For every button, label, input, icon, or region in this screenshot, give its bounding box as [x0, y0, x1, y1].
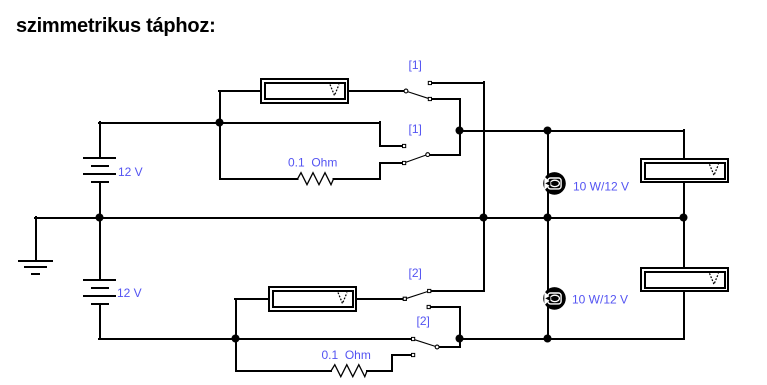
svg-text:10 W/12 V: 10 W/12 V [573, 179, 629, 193]
switch SW2 pole circle [426, 153, 430, 157]
svg-text:[1]: [1] [409, 58, 422, 72]
battery B1 [83, 158, 116, 182]
switch SW4 throw-b terminal [412, 353, 415, 356]
wire top rail [99, 122, 380, 124]
switch SW1 pole circle [404, 89, 408, 93]
switch SW3 pole terminal [403, 297, 406, 300]
svg-text:12 V: 12 V [118, 165, 143, 179]
resistor R2 [331, 365, 367, 377]
switch SW3 throw-b terminal [427, 305, 430, 308]
lamp L2 [543, 287, 566, 310]
svg-text:0.1 Ohm: 0.1 Ohm [288, 156, 337, 170]
wire bottom rail left [99, 338, 412, 340]
node I [456, 335, 464, 343]
svg-text:[2]: [2] [417, 314, 430, 328]
wire voltmeter U4 drop [235, 299, 237, 339]
wire switch4 pivot [439, 346, 461, 348]
switch SW4 pole circle [435, 345, 439, 349]
wire resistor R2 to switch4 [367, 355, 411, 371]
voltmeter U3 [640, 267, 729, 292]
switch SW2 lever [406, 155, 426, 162]
svg-text:0.1 Ohm: 0.1 Ohm [322, 348, 371, 362]
wire voltmeter U1 left drop [219, 91, 221, 123]
svg-text:szimmetrikus táphoz:: szimmetrikus táphoz: [16, 15, 215, 37]
wire switch1 throw-b [432, 99, 461, 155]
switch SW2 throw-b terminal [403, 161, 406, 164]
switch SW4 throw-a terminal [412, 337, 415, 340]
wire battery1 bottom [99, 182, 101, 218]
wire lamp1 rail [459, 130, 684, 132]
lamp L1 [543, 172, 566, 195]
wire switch2 pivot [429, 154, 460, 156]
svg-text:[2]: [2] [409, 266, 422, 280]
switch SW2 throw-a terminal [403, 144, 406, 147]
resistor R1 [298, 173, 334, 185]
wire resistor R2 path [236, 339, 331, 371]
node A [216, 119, 224, 127]
wire switch1 throw-a [432, 82, 485, 84]
node J [544, 335, 552, 343]
switch SW3 lever [407, 292, 428, 299]
wire middle rail [35, 217, 684, 219]
node E [480, 214, 488, 222]
ground [19, 261, 52, 274]
node H [232, 335, 240, 343]
wire right column [683, 130, 685, 339]
wire resistor R1 path [220, 123, 298, 179]
wire bottom rail right [459, 338, 684, 340]
switch SW4 lever [415, 340, 436, 347]
svg-text:12 V: 12 V [117, 286, 142, 300]
node G [680, 214, 688, 222]
switch SW1 throw-b terminal [428, 97, 431, 100]
node B [456, 127, 464, 135]
voltmeter U2 [640, 158, 729, 183]
wire voltmeter U1 left [219, 90, 262, 92]
wire voltmeter U1 right [347, 90, 404, 92]
node D [96, 214, 104, 222]
wire battery2 top [99, 217, 101, 280]
wire battery2 bottom [99, 304, 101, 339]
battery B2 [83, 280, 116, 304]
wire ground drop [35, 217, 37, 261]
node C [544, 127, 552, 135]
switch SW1 throw-a terminal [428, 81, 431, 84]
wire switch3 throw-b [431, 307, 461, 347]
wire switch3 throw-a [431, 290, 485, 292]
wire voltmeter U4 right [355, 298, 403, 300]
node F [544, 214, 552, 222]
svg-text:10 W/12 V: 10 W/12 V [572, 293, 628, 307]
voltmeter U4 [268, 286, 357, 312]
wire column x484 [483, 82, 485, 291]
switch SW1 lever [408, 92, 429, 99]
switch SW3 throw-a terminal [428, 289, 431, 292]
wire voltmeter U4 left [235, 298, 270, 300]
wire lamp column [547, 130, 549, 339]
wire resistor R1 to switch2 [334, 163, 403, 179]
wire direct path to switch2 [380, 122, 403, 146]
wire battery1 top [99, 122, 101, 158]
svg-text:[1]: [1] [409, 122, 422, 136]
voltmeter U1 [260, 78, 349, 104]
